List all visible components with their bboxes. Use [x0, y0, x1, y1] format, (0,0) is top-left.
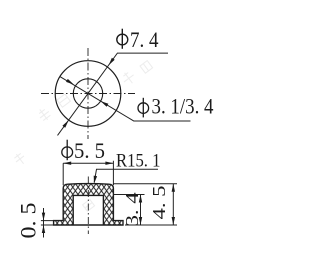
cap section body with crosshatch [54, 184, 123, 225]
vertical centerline [87, 48, 89, 139]
dim 0.5 line [43, 208, 45, 238]
horizontal centerline [41, 93, 135, 95]
arrow 0.5 top outside [42, 213, 45, 221]
arrow 5.5 right [105, 162, 113, 165]
R15.1 underline and leader [94, 169, 158, 182]
arrow dim 3.4 lower-right [101, 101, 109, 107]
inner circle (d 3.4) [73, 79, 102, 108]
arrow 3.4 bottom [139, 217, 142, 225]
leader line dim 7.4 diagonal [58, 53, 169, 135]
dim 4.5 extension lines [113, 184, 177, 225]
svg-text:4. 5: 4. 5 [149, 186, 169, 220]
dim 0.5 extension lines [41, 221, 54, 225]
svg-text:R15. 1: R15. 1 [116, 151, 161, 172]
arrow 0.5 bottom outside [42, 225, 45, 233]
arrow 4.5 top [172, 184, 175, 192]
watermark faint glyph blocks [12, 61, 152, 212]
arrow dim 7.4 lower-left [62, 120, 68, 128]
arrow 5.5 left [63, 162, 71, 165]
dim 4.5 line [172, 184, 174, 225]
svg-text:5. 5: 5. 5 [74, 138, 105, 163]
dim 5.5 extension lines [63, 161, 113, 186]
arrow R15.1 [94, 176, 97, 184]
svg-text:3. 1/3. 4: 3. 1/3. 4 [152, 94, 214, 119]
outer circle (d 7.4) [55, 61, 121, 127]
arrow dim 7.4 upper-right [109, 58, 115, 65]
svg-text:3. 4: 3. 4 [122, 192, 142, 226]
arrow 3.4 top [139, 195, 142, 203]
dim 5.5 line [63, 162, 113, 164]
arrow 4.5 bottom [172, 217, 175, 225]
svg-text:7. 4: 7. 4 [130, 27, 159, 52]
phi symbol of 7.4 [117, 29, 128, 49]
leader line dim 3.1/3.4 diagonal [60, 77, 191, 121]
phi symbol of 3.1/3.4 [138, 98, 149, 118]
svg-text:0. 5: 0. 5 [15, 203, 40, 239]
section centerline [87, 177, 89, 235]
dim 3.4 extension line [113, 194, 144, 196]
dim 3.4 line [140, 195, 142, 226]
arrow dim 3.4 upper-left [66, 79, 74, 85]
phi symbol of 5.5 [62, 140, 73, 161]
